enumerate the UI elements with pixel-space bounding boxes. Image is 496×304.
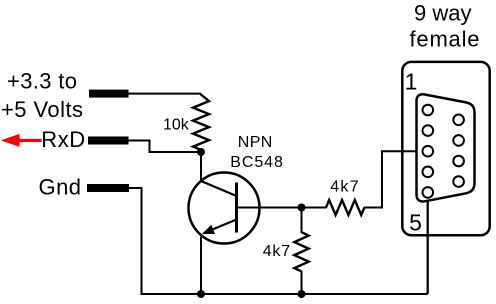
svg-text:+5 Volts: +5 Volts <box>1 97 83 122</box>
svg-text:Gnd: Gnd <box>39 174 82 199</box>
svg-text:9 way: 9 way <box>414 1 471 26</box>
svg-text:4k7: 4k7 <box>330 178 358 195</box>
svg-text:1: 1 <box>405 69 418 95</box>
svg-text:BC548: BC548 <box>230 154 283 171</box>
svg-text:10k: 10k <box>163 117 190 134</box>
svg-text:+3.3 to: +3.3 to <box>7 68 77 93</box>
svg-text:female: female <box>410 26 480 51</box>
svg-text:RxD: RxD <box>41 127 85 152</box>
svg-text:5: 5 <box>409 209 422 235</box>
svg-text:4k7: 4k7 <box>263 243 290 260</box>
svg-text:NPN: NPN <box>238 134 272 151</box>
